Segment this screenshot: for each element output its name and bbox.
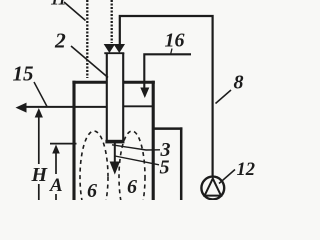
svg-text:12: 12	[237, 160, 256, 180]
arrow: inlet 16 arrowhead	[140, 88, 149, 99]
pump 12: inner triangle	[205, 179, 221, 196]
draft tube 2: bottom distributor bar	[105, 140, 124, 144]
svg-text:8: 8	[234, 72, 244, 94]
valve V (two solid triangles) at top of draft tube	[105, 45, 125, 53]
leader line for 2	[71, 46, 108, 78]
svg-text:11: 11	[51, 0, 67, 9]
svg-text:15: 15	[13, 62, 34, 86]
circulation loop right (dashed ellipse)	[119, 131, 145, 223]
svg-text:6: 6	[87, 180, 97, 200]
wire: phantom dotted shaft line left	[86, 0, 88, 78]
svg-text:5: 5	[160, 157, 170, 179]
svg-text:2: 2	[54, 29, 66, 53]
vessel 1: top edge right segment	[124, 81, 155, 84]
wire: central feed jet line	[114, 143, 116, 163]
wire: A level line	[50, 143, 77, 145]
svg-text:6: 6	[127, 176, 137, 198]
dimension H: vertical line	[38, 112, 40, 164]
draft tube 2: top collar	[104, 52, 124, 54]
leader line for 11	[64, 2, 86, 21]
arrow: H dimension up arrowhead	[35, 108, 43, 118]
wire: feed pipe top horizontal and right vertical 8	[120, 16, 213, 177]
svg-text:16: 16	[165, 30, 185, 52]
pipe 16: inlet with corner	[144, 54, 191, 89]
external chamber: right wall	[180, 127, 183, 200]
leader line for 3	[112, 145, 160, 150]
wire: liquid level line right of tube	[123, 105, 152, 107]
circulation loop left (dashed ellipse)	[80, 131, 108, 223]
dimension A: vertical line	[55, 148, 57, 174]
wire: liquid level / outlet 15 line left part	[24, 106, 107, 108]
vessel 1: left wall	[72, 81, 75, 200]
leader line for 15	[34, 82, 47, 107]
arrow: outlet 15 arrowhead pointing left	[16, 103, 27, 113]
draft tube 2: left wall	[106, 53, 108, 143]
arrow: jet downward arrowhead	[110, 162, 120, 175]
vessel 1: top edge left segment	[72, 81, 106, 84]
external chamber: top edge	[154, 127, 182, 130]
leader line for 5	[115, 156, 159, 165]
wire: phantom dotted shaft line right	[111, 0, 113, 43]
svg-text:A: A	[49, 175, 63, 196]
leader tick for 16	[171, 49, 172, 54]
leader line for 12	[219, 170, 235, 184]
arrow: A dimension up arrowhead	[52, 145, 60, 154]
leader line for 8	[216, 90, 232, 104]
draft tube 2: right wall	[122, 53, 124, 143]
svg-text:H: H	[31, 164, 49, 186]
vessel 1: right wall	[152, 81, 155, 200]
pump 12: circle	[201, 177, 224, 200]
